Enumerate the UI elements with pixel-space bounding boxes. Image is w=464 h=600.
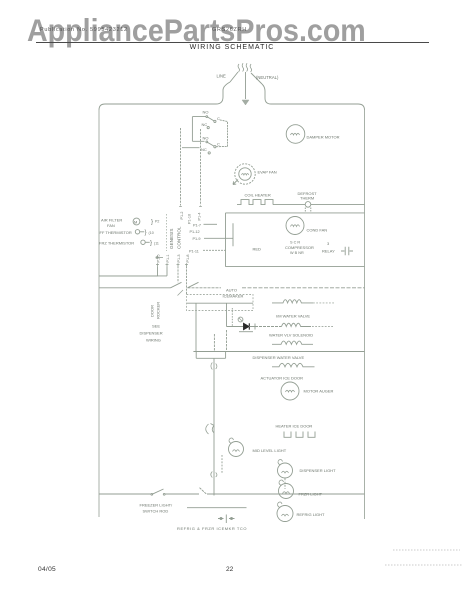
svg-text:THERM: THERM	[300, 196, 314, 201]
main bus left segment	[99, 287, 171, 289]
wire icemaker right drop lower	[214, 330, 226, 352]
svg-text:WATER VLV SOLENOID: WATER VLV SOLENOID	[269, 333, 313, 338]
svg-text:(NEUTRAL): (NEUTRAL)	[256, 75, 279, 80]
svg-text:C: C	[217, 116, 220, 121]
wire: thermistor return bus	[99, 275, 167, 277]
svg-text:REFRIG & FRZR ICEMKR TCO: REFRIG & FRZR ICEMKR TCO	[177, 526, 247, 531]
svg-text:CONTROL: CONTROL	[177, 226, 182, 249]
small terminal mark	[156, 257, 163, 259]
main bus right segment (dashed)	[242, 287, 365, 289]
dispenser light dashed drop	[284, 479, 286, 490]
pin tip P1-2	[179, 206, 182, 208]
svg-text:AIR FILTER: AIR FILTER	[101, 218, 122, 223]
power plug prongs	[238, 63, 251, 72]
svg-text:P1-12: P1-12	[190, 230, 200, 234]
svg-text:(10: (10	[149, 231, 154, 235]
dispenser light filament	[282, 471, 289, 473]
svg-text:ROCKER: ROCKER	[156, 302, 161, 319]
svg-text:REFRIG LIGHT: REFRIG LIGHT	[297, 512, 326, 517]
auger motor	[281, 382, 299, 400]
pin tip P1-4	[199, 206, 202, 208]
extra switch fragment	[178, 290, 184, 296]
refrig light bulb	[277, 506, 293, 522]
model number	[212, 27, 247, 33]
coil 1 dashed lead right	[313, 302, 334, 304]
svg-text:3: 3	[327, 241, 330, 246]
svg-text:FRZR LIGHT: FRZR LIGHT	[299, 492, 323, 497]
TCO fuse symbols	[218, 515, 235, 524]
dispenser light bulb	[278, 463, 293, 478]
cond fan winding curls	[291, 225, 300, 227]
relay switch 2 NO arm	[207, 142, 214, 146]
svg-text:RELAY: RELAY	[322, 249, 335, 254]
refrig light filament	[282, 514, 289, 516]
svg-text:DISPENSER: DISPENSER	[140, 331, 163, 336]
icemaker drop wire right	[226, 303, 228, 326]
refrig light curl	[277, 502, 282, 508]
ice door heater element	[284, 432, 315, 438]
power plug body	[230, 72, 262, 84]
svg-text:}: }	[151, 220, 153, 226]
svg-text:S C R: S C R	[290, 241, 300, 245]
wire: defrost drops to compressor box	[305, 208, 311, 214]
mid level light filament	[233, 450, 240, 452]
freezer light switch arm	[152, 489, 164, 494]
air filter fan motor M	[133, 218, 140, 225]
svg-text:HEATER ICE DOOR: HEATER ICE DOOR	[276, 424, 313, 429]
svg-text:P1-11: P1-11	[189, 249, 199, 253]
wire: frame right edge	[364, 110, 366, 519]
inline connector lower	[206, 424, 214, 435]
footer page number	[226, 566, 233, 573]
svg-text:M: M	[134, 219, 137, 224]
svg-text:MOTOR AUGER: MOTOR AUGER	[304, 389, 334, 394]
inline connector upper	[211, 363, 217, 370]
svg-text:DAMPER MOTOR: DAMPER MOTOR	[307, 135, 340, 140]
defrost thermostat	[305, 202, 311, 208]
wire from P1-11 (dashed)	[203, 249, 226, 251]
svg-text:NC: NC	[201, 147, 207, 152]
wire: neutral riser to frame	[262, 84, 271, 104]
actuator coil L4	[272, 363, 315, 367]
frzr light filament	[283, 492, 290, 494]
svg-text:FRZ THERMISTOR: FRZ THERMISTOR	[99, 241, 134, 246]
lights bus left segment	[99, 493, 152, 495]
pin ticks bottom row	[156, 263, 188, 266]
water fill valve coil L2	[282, 323, 311, 326]
wire: line riser to frame	[216, 82, 230, 104]
run capacitor	[341, 247, 353, 255]
svg-text:COMPRESSOR: COMPRESSOR	[285, 245, 314, 250]
auto icemaker dashed box	[187, 295, 254, 311]
wire: heater-defrost bus	[273, 204, 365, 206]
white underlay for icemaker label	[221, 287, 242, 299]
header rule	[36, 42, 429, 44]
wire: frame top-right corner	[358, 104, 365, 110]
svg-text:P1-2: P1-2	[180, 211, 184, 219]
relay contacts block: left wire	[192, 117, 206, 142]
svg-text:MID LEVEL LIGHT: MID LEVEL LIGHT	[253, 448, 287, 453]
svg-text:DOOR: DOOR	[150, 305, 155, 317]
wire: frame top-left corner	[99, 104, 105, 110]
icemaker dashed drop	[231, 308, 233, 327]
footer date	[38, 566, 56, 573]
frzr light curl	[279, 480, 284, 486]
svg-text:SWITCH ROD: SWITCH ROD	[143, 509, 169, 514]
svg-text:AUTO: AUTO	[226, 288, 237, 293]
svg-text:COIL HEATER: COIL HEATER	[245, 193, 271, 198]
svg-text:SEE: SEE	[152, 324, 160, 329]
evap fan motor outer circle	[235, 164, 255, 184]
coil heater element R1	[237, 200, 273, 205]
FF thermistor RT1	[135, 230, 139, 234]
damper motor winding curls	[291, 133, 300, 135]
svg-text:DISPENSER WATER VALVE: DISPENSER WATER VALVE	[253, 355, 305, 360]
diode D1 lead	[227, 326, 244, 328]
lights bus mid segment	[165, 493, 199, 495]
svg-text:P1-9: P1-9	[193, 237, 201, 241]
coil 2 dashed lead right	[312, 326, 334, 328]
diode D1	[244, 323, 250, 329]
watermark	[27, 15, 366, 47]
damper motor U-DM	[286, 125, 305, 144]
sub bus below dispenser bus	[196, 352, 225, 359]
svg-text:P1-1: P1-1	[166, 254, 170, 262]
wire to water valve coil 2	[255, 326, 282, 328]
svg-text:COND FAN: COND FAN	[307, 228, 328, 233]
cond fan motor	[286, 217, 304, 235]
center drop wire	[213, 358, 215, 495]
title	[0, 44, 464, 51]
wire P1-1 down	[166, 266, 168, 276]
frzr light bulb	[279, 484, 294, 499]
svg-text:(11: (11	[154, 241, 159, 245]
icemaker drop wire left	[195, 303, 197, 351]
icemaker switch arm 2	[188, 282, 199, 288]
wire: NC2 stub	[182, 147, 200, 149]
svg-text:NC: NC	[202, 122, 208, 127]
svg-text:DISPENSER LIGHT: DISPENSER LIGHT	[300, 468, 337, 473]
TCO separator line	[187, 507, 247, 509]
svg-text:FAN: FAN	[107, 223, 115, 228]
diode D1 output lead	[249, 324, 255, 330]
svg-text:P1-4: P1-4	[198, 212, 202, 220]
svg-text:P1-3: P1-3	[177, 254, 181, 262]
wire P1-8 down to icemaker	[186, 266, 188, 294]
publication number	[40, 27, 128, 33]
FRZ thermistor RT2	[141, 240, 145, 244]
relay switch 1 NO arm	[207, 117, 214, 121]
svg-text:W B NR: W B NR	[290, 251, 304, 255]
icemaker water valve coil L1	[272, 300, 313, 303]
mid light dashed drop	[221, 455, 223, 473]
evap fan arrow	[233, 180, 238, 185]
evap fan winding curls	[242, 174, 249, 176]
svg-text:ACTUATOR ICE DOOR: ACTUATOR ICE DOOR	[261, 376, 304, 381]
auger motor winding curls	[286, 390, 295, 392]
svg-text:P1-10: P1-10	[188, 214, 192, 224]
svg-text:FF THERMISTOR: FF THERMISTOR	[100, 230, 132, 235]
wire: frame left edge	[98, 110, 100, 517]
footer dotted line 2	[385, 564, 462, 566]
svg-text:RED: RED	[253, 247, 262, 252]
svg-text:P1-5: P1-5	[157, 254, 161, 262]
dispenser light curl	[278, 460, 283, 466]
footer dotted line 1	[393, 549, 460, 551]
svg-text:C: C	[217, 142, 220, 147]
svg-text:WIRING: WIRING	[146, 338, 161, 343]
dispenser valve coil L3	[272, 341, 313, 344]
evap fan motor inner circle	[239, 168, 251, 180]
wire: ground stem	[245, 84, 247, 99]
wire P1-4 vertical (dashed)	[200, 129, 202, 206]
wire P1-3 down to switch	[177, 266, 179, 282]
svg-text:GENESIS: GENESIS	[169, 229, 174, 249]
diode underline	[239, 331, 253, 333]
relay switch 1 terminals	[206, 116, 208, 118]
compressor box	[226, 213, 365, 267]
wire: relay commons right vertical	[216, 120, 228, 147]
svg-text:P2: P2	[155, 220, 159, 224]
icemaker mold sensor circle	[238, 317, 243, 322]
svg-text:NO: NO	[203, 110, 209, 115]
main bus middle segment	[188, 287, 222, 289]
wire: frame top edge left segment	[105, 103, 216, 105]
mid light switch arm	[200, 488, 207, 495]
wire: start device vertical	[232, 223, 234, 246]
wire P1-2 vertical (dashed)	[180, 128, 182, 206]
mid level light curl	[229, 438, 234, 444]
genesis control left dashed edge	[166, 214, 168, 251]
dispenser bus	[193, 351, 364, 353]
svg-text:FREEZER LIGHT/: FREEZER LIGHT/	[140, 503, 174, 508]
wire P1-5 down and left to frame	[99, 266, 158, 276]
relay switch 2 terminals	[206, 141, 208, 143]
svg-text:I/M WATER VALVE: I/M WATER VALVE	[276, 314, 310, 319]
svg-text:EVAP FAN: EVAP FAN	[258, 170, 277, 175]
wire from P1-9	[204, 237, 233, 239]
svg-text:NO: NO	[203, 136, 209, 141]
svg-text:P1-7: P1-7	[193, 223, 201, 227]
svg-text:}: }	[150, 241, 152, 247]
inline connector lower 2	[211, 472, 217, 478]
lights bus right segment	[207, 493, 365, 495]
icemaker internal bus	[187, 302, 253, 304]
ground symbol	[242, 100, 249, 105]
wire: frame top edge right segment	[271, 103, 358, 105]
icemaker switch arm 1	[171, 282, 182, 288]
svg-text:P1-8: P1-8	[186, 254, 190, 262]
svg-text:}: }	[145, 230, 147, 236]
mid level light bulb	[229, 442, 244, 457]
svg-text:LINE: LINE	[217, 74, 227, 79]
wire from P1-7	[204, 223, 218, 225]
